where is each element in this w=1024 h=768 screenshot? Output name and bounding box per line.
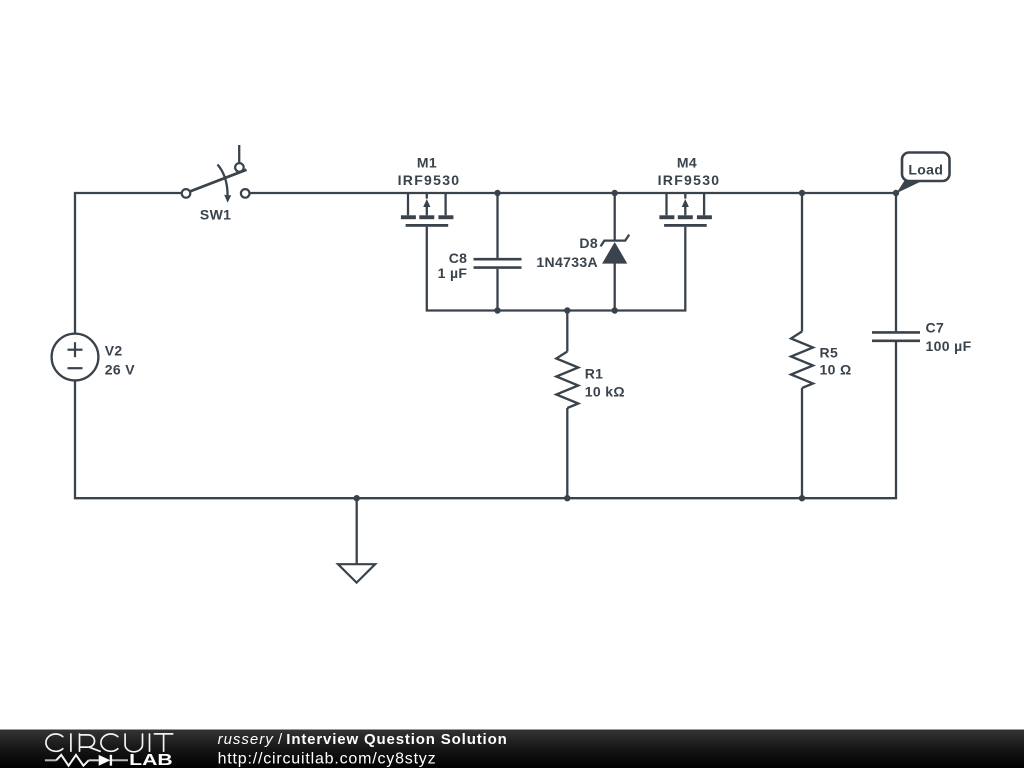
svg-text:C7: C7 [926,320,945,336]
svg-text:Load: Load [908,162,943,178]
svg-text:russery / Interview Question S: russery / Interview Question Solution [218,731,508,748]
svg-text:IRF9530: IRF9530 [658,172,721,188]
svg-text:C8: C8 [449,250,468,266]
svg-text:D8: D8 [579,235,598,251]
svg-text:http://circuitlab.com/cy8styz: http://circuitlab.com/cy8styz [218,750,437,767]
svg-text:M4: M4 [677,154,697,170]
svg-text:10 kΩ: 10 kΩ [585,383,625,399]
svg-text:V2: V2 [105,343,123,359]
svg-text:10 Ω: 10 Ω [820,362,852,378]
svg-text:SW1: SW1 [200,207,231,223]
svg-text:26 V: 26 V [105,361,136,377]
svg-text:1N4733A: 1N4733A [536,254,598,270]
svg-text:R1: R1 [585,366,604,382]
svg-text:1 µF: 1 µF [438,265,468,281]
svg-text:IRF9530: IRF9530 [398,172,461,188]
svg-text:M1: M1 [417,154,437,170]
svg-text:LAB: LAB [129,752,173,768]
svg-text:R5: R5 [820,344,839,360]
svg-text:100 µF: 100 µF [926,338,972,354]
